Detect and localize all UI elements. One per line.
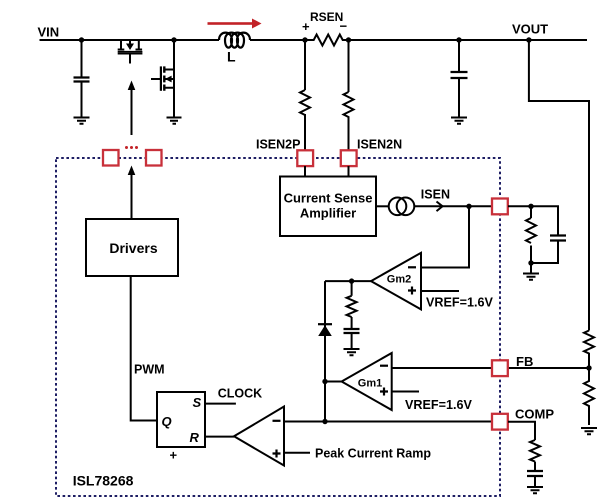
- svg-text:Current Sense: Current Sense: [284, 191, 373, 206]
- ground (output cap): [451, 118, 467, 124]
- IC boundary dashed box ISL78268: [56, 158, 500, 496]
- pin square (gate drive right): [146, 150, 162, 166]
- pin square ISEN: [492, 199, 508, 215]
- wire: Gm1 output to left rail: [325, 381, 342, 383]
- wire: comp node down left rail: [324, 281, 326, 421]
- svg-text:+: +: [302, 19, 310, 34]
- resistor (ISEN2N sense): [344, 92, 354, 118]
- wire: Peak Current Ramp to comparator plus: [284, 452, 310, 454]
- wire: current source to ISEN pin with arrow: [414, 205, 492, 207]
- ground (Q2 source): [167, 118, 182, 124]
- wire: COMP pin to external RC: [508, 422, 535, 440]
- wire: Gm2 plus to VREF: [421, 290, 459, 292]
- wire: CSA output to current source: [376, 205, 389, 207]
- svg-text:VREF=1.6V: VREF=1.6V: [405, 398, 472, 412]
- svg-text:+: +: [170, 448, 178, 463]
- svg-text:R: R: [190, 430, 200, 445]
- svg-text:ISL78268: ISL78268: [73, 473, 134, 489]
- op-amp Gm2: [371, 253, 421, 310]
- capacitor (COMP ext): [527, 471, 543, 476]
- svg-text:Peak Current Ramp: Peak Current Ramp: [315, 447, 431, 461]
- svg-text:RSEN: RSEN: [310, 10, 343, 24]
- wire: Gm1 minus to FB: [392, 367, 589, 369]
- comparator U3 (PWM comparator): [234, 407, 284, 466]
- wire: Gm2 output to comp node: [325, 280, 371, 282]
- wire: switch node down to Q2 drain: [173, 40, 175, 117]
- current source (ISEN mirror): [389, 198, 407, 216]
- node: output cap junction: [456, 37, 461, 42]
- red dots continuation: [125, 146, 138, 149]
- svg-text:S: S: [193, 395, 202, 410]
- comparator minus sign: [273, 420, 281, 422]
- svg-text:Drivers: Drivers: [109, 240, 157, 256]
- pin square (gate drive left): [103, 150, 119, 166]
- resistor RSEN: [305, 35, 352, 46]
- svg-text:Gm2: Gm2: [387, 274, 411, 286]
- node: switch node: [171, 37, 176, 42]
- Q2 body arrow: [165, 76, 172, 83]
- wire: CLOCK to S: [205, 403, 236, 405]
- wire: output cap branch: [458, 40, 460, 72]
- wire: down to resistor: [530, 206, 532, 218]
- resistor (ISEN2P sense): [300, 90, 310, 116]
- capacitor COUT: [451, 72, 468, 78]
- wire: PWM from flip-flop to Drivers: [131, 276, 157, 421]
- comparator plus sign: [273, 450, 281, 458]
- svg-text:L: L: [227, 49, 236, 65]
- red current-direction arrow: [208, 19, 262, 29]
- svg-text:Amplifier: Amplifier: [300, 206, 356, 221]
- resistor (FB bottom): [584, 368, 594, 425]
- wire: RSEN to VOUT rail end: [349, 39, 588, 41]
- svg-text:PWM: PWM: [134, 363, 165, 377]
- node: FB divider junction: [586, 365, 591, 370]
- svg-text:VOUT: VOUT: [512, 22, 548, 37]
- ground (ISEN ext RC): [523, 274, 539, 280]
- wire: ISEN2P pin to CSA box: [304, 166, 306, 176]
- node RSEN+: [302, 37, 307, 42]
- svg-text:ISEN2N: ISEN2N: [357, 138, 402, 152]
- resistor (Gm2 comp): [347, 296, 357, 317]
- op-amp Gm1: [342, 353, 392, 410]
- node: VIN input cap junction: [79, 37, 84, 42]
- svg-text:COMP: COMP: [515, 407, 554, 422]
- wire: drivers up-arrow (lower, from Drivers box): [131, 172, 133, 219]
- capacitor CIN: [74, 78, 90, 82]
- transistor Q1 (high-side FET, lateral symbol): [118, 40, 143, 64]
- Drivers box: [86, 219, 178, 276]
- Gm2 minus sign: [408, 266, 416, 268]
- resistor (COMP ext): [530, 440, 540, 462]
- node: external RC bottom: [528, 260, 533, 265]
- wire: top rail VIN to inductor: [40, 39, 220, 41]
- svg-text:CLOCK: CLOCK: [218, 387, 262, 401]
- svg-text:Gm1: Gm1: [358, 378, 382, 390]
- wire: inductor to RSEN: [250, 39, 305, 41]
- Gm1 plus sign: [380, 388, 388, 396]
- Gm1 minus sign: [380, 365, 388, 367]
- wire: ISEN pin to external RC: [508, 206, 558, 235]
- Q1 body arrow: [126, 44, 134, 51]
- wire: ISEN junction down to Gm2 minus: [421, 206, 469, 267]
- node: external RC top: [528, 204, 533, 209]
- wire: COMP line (comparator minus to COMP pin): [284, 421, 508, 423]
- wire: ISEN2N pin to CSA box: [348, 166, 350, 176]
- svg-text:−: −: [340, 19, 348, 34]
- node: Gm1 output: [322, 379, 327, 384]
- wire: RSEN+ down to sense resistor: [304, 40, 306, 90]
- pin square FB: [492, 360, 508, 376]
- svg-text:ISEN: ISEN: [421, 188, 450, 202]
- wire: RSEN- down to sense resistor: [348, 40, 350, 92]
- flip-flop U2 (SR latch): [157, 392, 205, 447]
- resistor (FB top): [584, 331, 594, 369]
- svg-text:VREF=1.6V: VREF=1.6V: [426, 296, 493, 310]
- Current Sense Amplifier box U1: [280, 177, 376, 237]
- node: Gm2 comp RC: [349, 278, 354, 283]
- wire: comparator output to R: [205, 436, 234, 438]
- ground (FB divider): [581, 428, 597, 434]
- wire: drivers up-arrow to gates (upper): [131, 87, 133, 135]
- wire: to ISEN2N pin: [348, 117, 350, 150]
- ground (Gm2 comp): [344, 349, 360, 355]
- pin square ISEN2N: [341, 150, 357, 166]
- Gm2 plus sign: [408, 287, 416, 295]
- node: COMP / Gm rail junction: [322, 419, 327, 424]
- ground (input cap): [74, 118, 90, 124]
- pin square COMP: [492, 414, 508, 430]
- capacitor (Gm2 comp): [344, 329, 360, 333]
- inductor L: [219, 33, 250, 48]
- svg-text:FB: FB: [516, 354, 533, 369]
- capacitor (ISEN ext): [550, 236, 566, 241]
- svg-text:ISEN2P: ISEN2P: [256, 138, 300, 152]
- pin square ISEN2P: [297, 150, 313, 166]
- diode D1: [318, 323, 332, 325]
- ground (COMP ext): [527, 487, 543, 493]
- wire: Gm1 plus stub: [392, 391, 419, 393]
- node VOUT: [526, 37, 531, 42]
- resistor (ISEN ext): [526, 218, 536, 243]
- svg-text:Q: Q: [162, 414, 172, 429]
- wire: input cap branch: [81, 40, 83, 77]
- transistor Q2 (low-side FET): [151, 66, 174, 90]
- node RSEN-: [346, 37, 351, 42]
- node: ISEN junction: [466, 204, 471, 209]
- wire: VOUT down and over to divider: [529, 40, 589, 331]
- wire: to ISEN2P pin: [304, 114, 306, 150]
- svg-text:VIN: VIN: [38, 25, 60, 40]
- wire to comp resistor: [351, 281, 353, 296]
